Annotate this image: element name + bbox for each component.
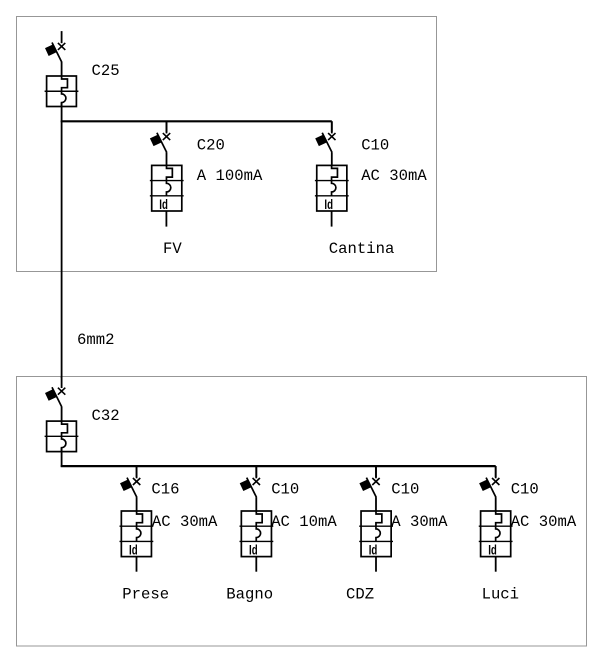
wire: Cantina branch drop from bus — [331, 121, 333, 132]
svg-text:Bagno: Bagno — [226, 586, 273, 604]
breaker Q4 contact (main C32) — [46, 376, 66, 421]
breaker Q7 internal trace — [376, 511, 382, 541]
breaker Q5 contact (C16 Prese) — [121, 466, 141, 511]
svg-text:Id: Id — [249, 542, 258, 557]
breaker Q6 internal trace — [256, 511, 262, 541]
svg-text:AC 30mA: AC 30mA — [361, 167, 427, 185]
svg-text:C16: C16 — [151, 480, 179, 498]
wire: riser from top bus down to C32 (6mm2 feeder) — [61, 121, 63, 378]
wire: bottom distribution bus — [61, 465, 496, 467]
svg-text:C10: C10 — [391, 480, 419, 498]
breaker Q8 contact (C10 Luci) — [480, 466, 500, 511]
wire: C32 output down to bottom bus — [61, 448, 63, 467]
breaker Q4 thermal-magnetic box (C32) — [45, 421, 79, 452]
svg-text:Id: Id — [324, 197, 333, 212]
breaker Q2 box with RCD cell (C20 FV) — [150, 165, 184, 211]
breaker Q7 box with RCD cell (C10 CDZ) — [359, 511, 393, 557]
wire: CDZ output stub — [375, 557, 377, 572]
svg-text:Id: Id — [159, 197, 168, 212]
breaker Q4 internal trace — [62, 421, 68, 451]
wire: top distribution bus — [61, 120, 332, 122]
wire: C25 output down to top bus — [61, 103, 63, 123]
breaker Q5 internal trace — [137, 511, 143, 541]
wire: Bagno branch drop from bus — [255, 466, 257, 477]
breaker Q6 box with RCD cell (C10 Bagno) — [240, 511, 274, 557]
panel enclosure box 2 (lower distribution board) — [17, 377, 587, 647]
svg-text:C32: C32 — [92, 407, 120, 425]
breaker Q2 internal trace — [166, 165, 172, 195]
wire: Bagno output stub — [255, 557, 257, 572]
breaker Q5 box with RCD cell (C16 Prese) — [119, 511, 153, 557]
svg-text:AC 10mA: AC 10mA — [271, 513, 337, 531]
wire: Prese output stub — [136, 557, 138, 572]
panel enclosure box 1 (upper distribution board) — [17, 17, 437, 272]
wire: CDZ branch drop from bus — [375, 466, 377, 477]
svg-text:AC 30mA: AC 30mA — [152, 513, 218, 531]
svg-text:CDZ: CDZ — [346, 586, 374, 604]
breaker Q8 internal trace — [496, 511, 502, 541]
breaker Q1 thermal-magnetic box (C25) — [45, 76, 79, 107]
wire: Luci branch drop from bus — [495, 466, 497, 477]
breaker Q2 contact (C20 FV) — [151, 121, 171, 166]
svg-text:Id: Id — [369, 542, 378, 557]
breaker Q3 contact (C10 Cantina) — [316, 121, 336, 166]
svg-text:Id: Id — [129, 542, 138, 557]
svg-text:6mm2: 6mm2 — [77, 331, 114, 349]
wire: FV branch drop from bus — [166, 121, 168, 132]
breaker Q7 contact (C10 CDZ) — [360, 466, 380, 511]
svg-text:C25: C25 — [92, 62, 120, 80]
breaker Q1 internal trace — [62, 76, 68, 106]
svg-text:Cantina: Cantina — [329, 240, 395, 258]
svg-text:AC 30mA: AC 30mA — [511, 513, 577, 531]
breaker Q1 contact (main C25) — [46, 31, 66, 76]
svg-text:C20: C20 — [197, 136, 225, 154]
svg-text:Id: Id — [488, 542, 497, 557]
wire: FV output stub — [165, 211, 167, 227]
breaker Q8 box with RCD cell (C10 Luci) — [479, 511, 513, 557]
wire: Luci output stub — [495, 557, 497, 572]
breaker Q3 box with RCD cell (C10 Cantina) — [315, 165, 349, 211]
wire: Cantina output stub — [331, 211, 333, 227]
svg-text:Luci: Luci — [482, 586, 519, 604]
svg-text:C10: C10 — [361, 136, 389, 154]
breaker Q6 contact (C10 Bagno) — [240, 466, 260, 511]
svg-text:Prese: Prese — [122, 586, 169, 604]
svg-text:C10: C10 — [271, 480, 299, 498]
svg-text:FV: FV — [163, 240, 182, 258]
wire: Prese branch drop from bus — [136, 466, 138, 477]
svg-text:A 100mA: A 100mA — [197, 167, 263, 185]
svg-text:C10: C10 — [511, 480, 539, 498]
breaker Q3 internal trace — [332, 165, 338, 195]
svg-text:A 30mA: A 30mA — [391, 513, 448, 531]
